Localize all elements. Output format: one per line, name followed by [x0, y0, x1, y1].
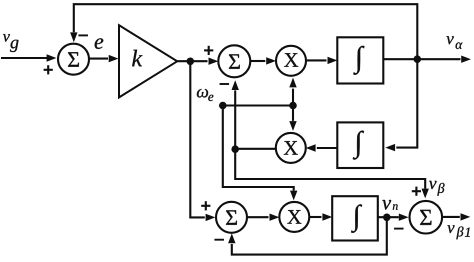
- summing junction S1: [58, 44, 89, 75]
- label − (S3 minus input): [214, 239, 224, 241]
- multiplier X2: [276, 133, 306, 163]
- wire: junction B up to S2 minus input: [232, 80, 239, 149]
- label + (S1 plus input): [44, 65, 53, 74]
- wire: X3 output to integrator U3: [309, 213, 332, 220]
- amplifier K1 (gain k): [119, 25, 177, 97]
- wire: U2 output to multiplier X2: [306, 144, 338, 151]
- label + (S4 plus input): [412, 187, 421, 196]
- wire: S2 output to multiplier X1: [250, 57, 276, 64]
- integrator U2: [337, 122, 383, 168]
- label v_alpha (output signal): [446, 36, 462, 49]
- wire: U1 output to v_alpha output: [383, 56, 471, 63]
- label + (S2 plus input): [204, 46, 213, 55]
- wire: S4 output to v_beta1: [442, 213, 470, 220]
- summing junction S3: [216, 202, 247, 233]
- label v_g (grid voltage input): [3, 34, 18, 52]
- node B (X2 output junction): [231, 145, 239, 153]
- wire: amplifier output to summing junction S2: [177, 58, 218, 65]
- wire: node v_alpha down to integrator U2 input: [385, 59, 417, 151]
- label − (S4 minus input): [394, 228, 404, 230]
- wire: U3 output v_n to S4 minus input: [378, 214, 409, 221]
- node v_alpha (output junction): [414, 55, 422, 63]
- multiplier X3: [279, 202, 309, 232]
- wire: node C down to X2 second input: [289, 106, 296, 131]
- wire: omega_e to multiplier column: [223, 104, 293, 106]
- wire: bottom feedback from node v_n to S3 minus input: [228, 217, 387, 254]
- node A (amplifier output junction): [187, 58, 195, 66]
- node omega_e (input terminal): [219, 102, 227, 110]
- wire: S3 output to multiplier X3: [247, 214, 279, 221]
- label e (error signal): [95, 38, 104, 49]
- label v_beta1 (output signal): [447, 225, 469, 239]
- wire: S1 output e to amplifier K1: [89, 55, 119, 62]
- summing junction S2: [218, 45, 250, 77]
- integrator U1: [337, 37, 383, 83]
- wire: X1 output to integrator U1: [306, 57, 337, 64]
- summing junction S4: [410, 201, 443, 234]
- wire: node A down and right to S3 plus input: [190, 61, 215, 221]
- wire: top feedback from node v_alpha to S1: [70, 4, 417, 59]
- node v_n (U3 output junction): [383, 214, 391, 222]
- label − (S2 minus input): [220, 83, 230, 85]
- integrator U3: [332, 196, 378, 240]
- label omega_e (estimated frequency input): [197, 89, 214, 101]
- wire: omega_e down and right to X3 second input: [223, 106, 298, 201]
- wire: junction B down and right to S4 plus input (v_beta): [235, 149, 429, 198]
- wire: X2 output to junction B: [235, 148, 276, 150]
- label v_n: [382, 200, 397, 210]
- label + (S3 plus input): [201, 201, 210, 210]
- node C (omega_e branch junction): [289, 102, 297, 110]
- multiplier X1: [276, 46, 306, 76]
- wire: node C up to X1 second input: [289, 78, 296, 106]
- label v_beta: [429, 181, 445, 196]
- label − (S1 feedback minus input): [78, 34, 88, 36]
- wire: v_g input into summing junction S1: [1, 54, 56, 61]
